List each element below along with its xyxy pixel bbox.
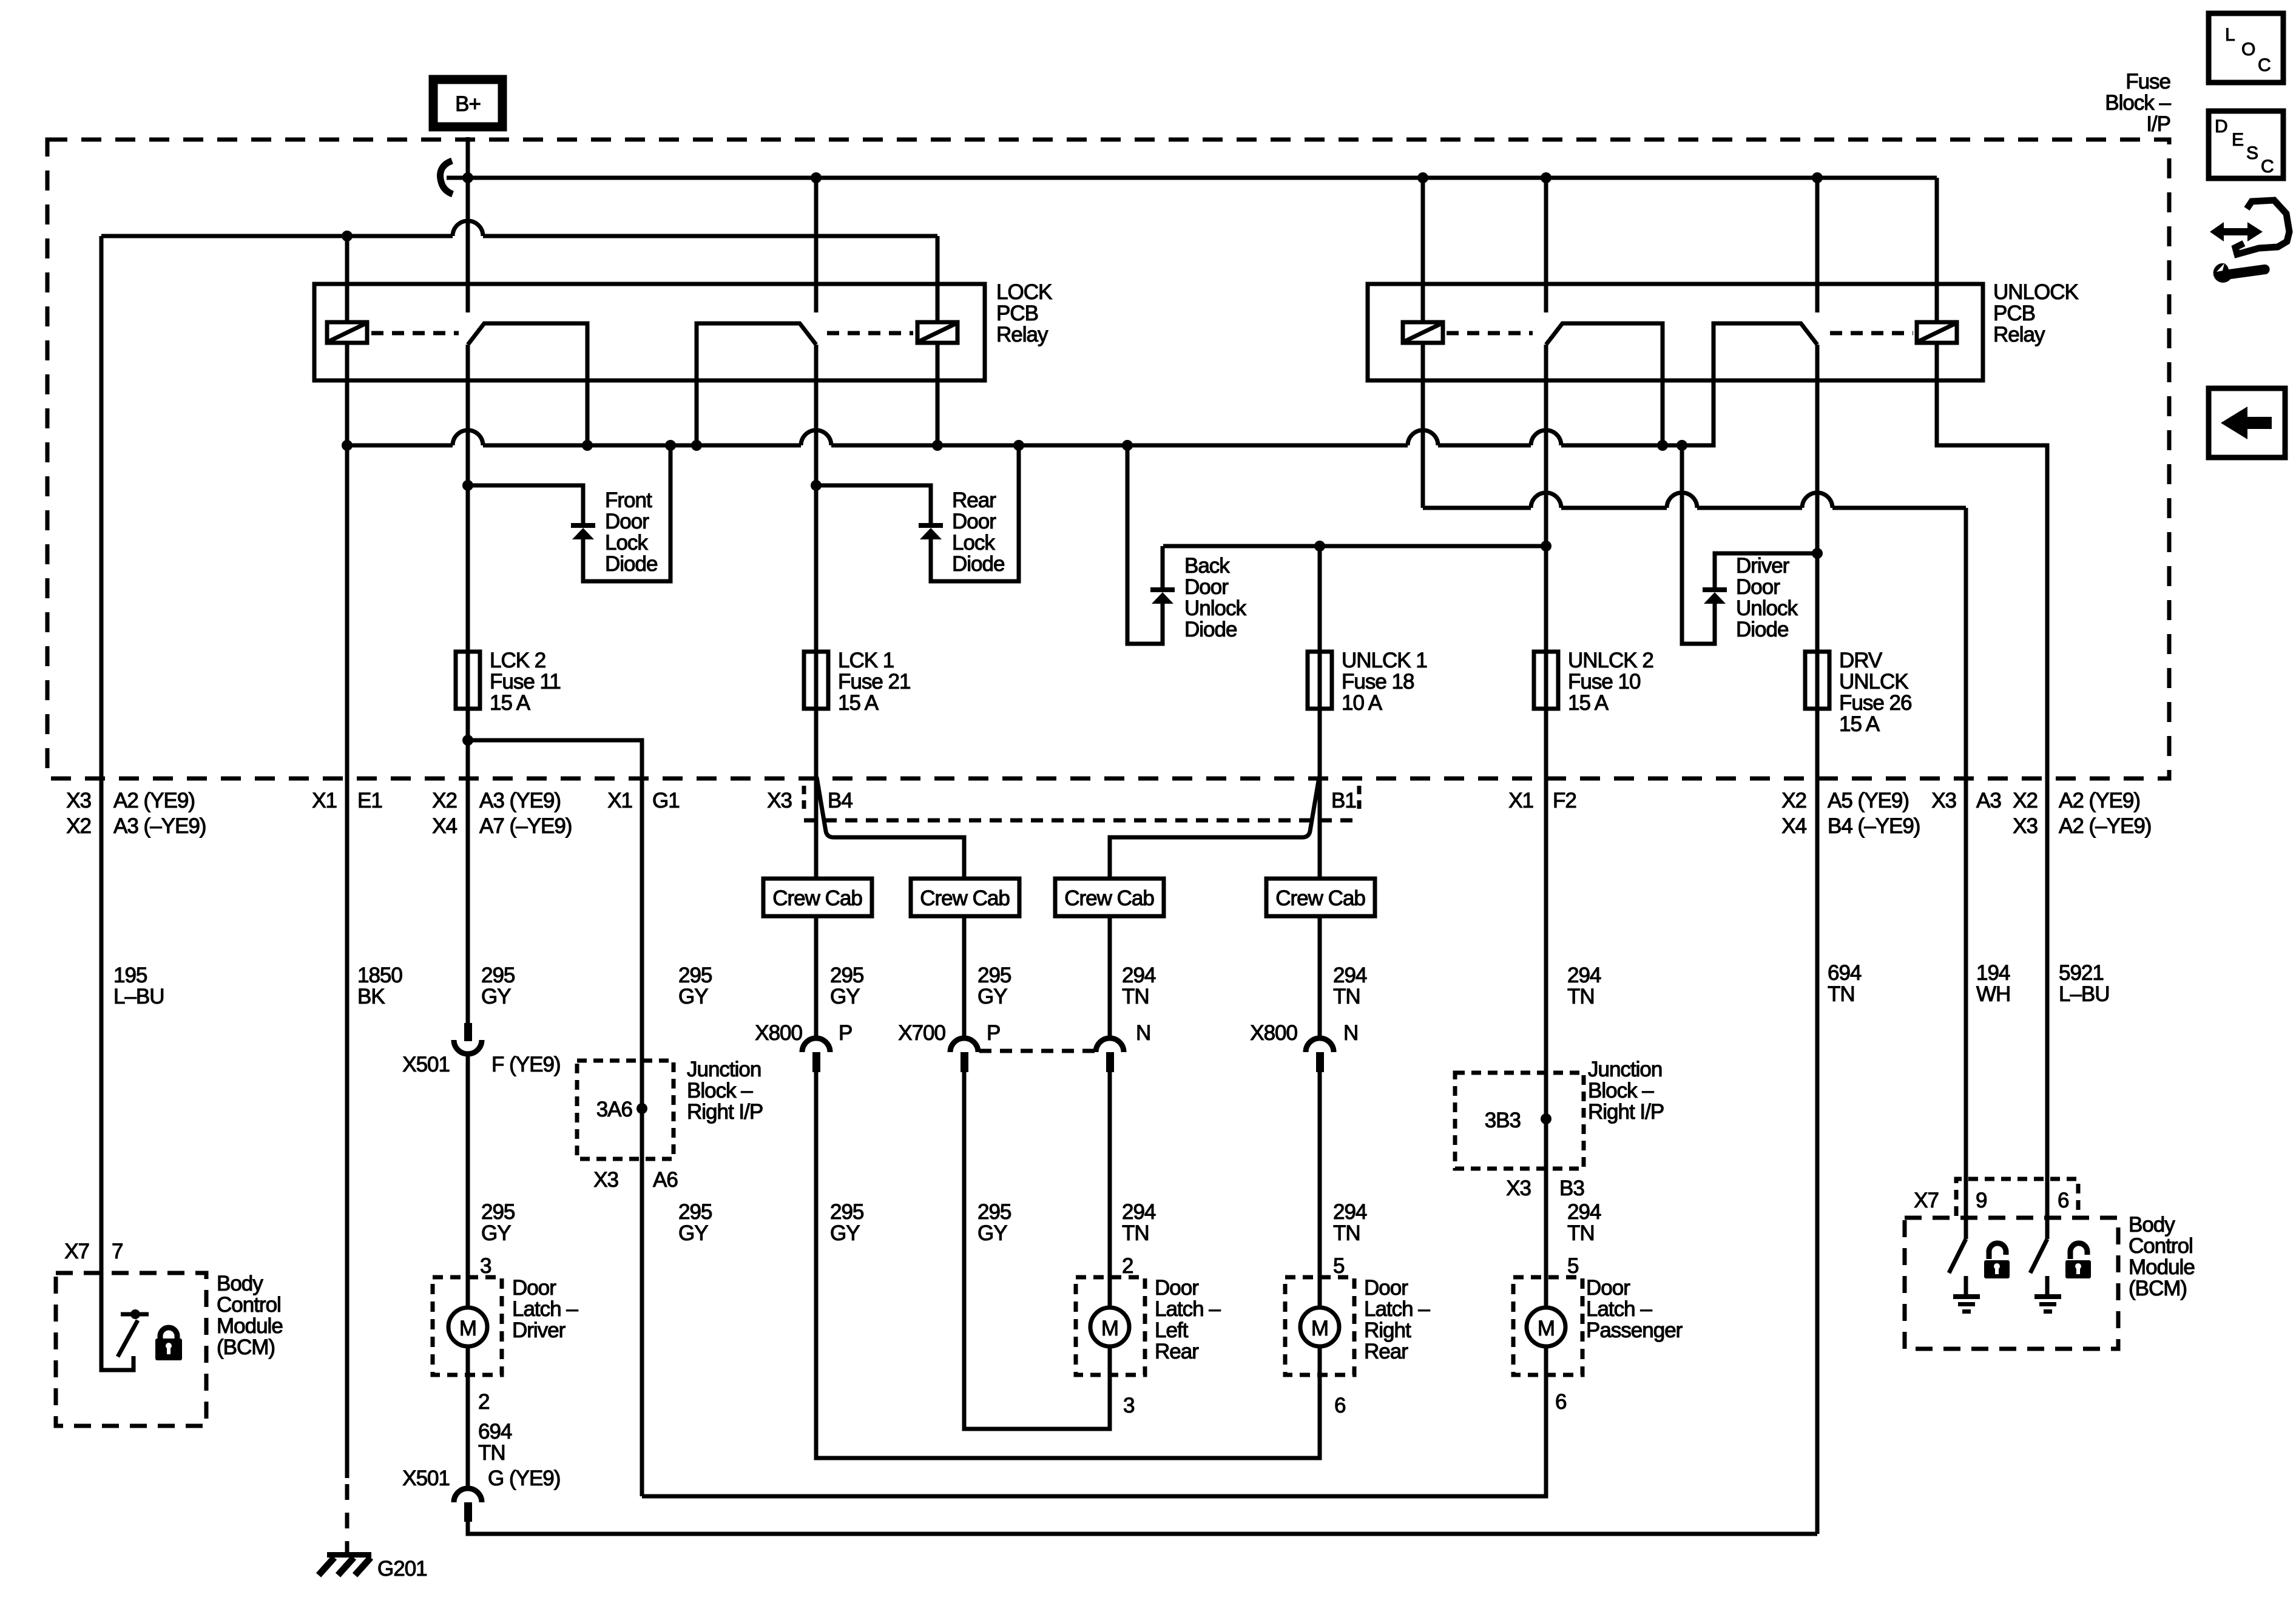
svg-text:Junction: Junction — [687, 1058, 761, 1081]
labels: X3 B3 below junction block — [1506, 1176, 1584, 1200]
svg-text:LCK 1: LCK 1 — [838, 649, 894, 672]
svg-text:BK: BK — [357, 985, 385, 1008]
svg-text:15 A: 15 A — [1568, 691, 1609, 715]
B+ battery positive voltage terminal — [433, 79, 502, 127]
wire: relay output bus (coil/contact rail) — [347, 323, 1714, 445]
labels: X7 7 at left BCM — [64, 1240, 123, 1263]
wire: lock coil L top lead — [345, 236, 349, 322]
svg-text:Junction: Junction — [1588, 1058, 1662, 1081]
hop: control line over driver diode wire — [1667, 493, 1697, 508]
svg-text:Block –: Block – — [2105, 91, 2171, 115]
fuse: DRV UNLCK Fuse 26 15 A — [1805, 652, 1829, 709]
connector X800 pin P on rear lock wire — [802, 1038, 830, 1072]
svg-text:(BCM): (BCM) — [217, 1335, 275, 1359]
svg-text:GY: GY — [481, 985, 511, 1008]
svg-text:6: 6 — [2058, 1189, 2068, 1212]
svg-text:295: 295 — [977, 1200, 1011, 1224]
wire: lock relay coil control line to BCM (pin 7 side) — [101, 234, 937, 238]
wire: UNLCK1 branch down through fuse to B1 — [1318, 546, 1322, 1308]
relay switch 1 (unlock): fixed contact from B+ — [1544, 178, 1548, 312]
fuse: LCK 1 Fuse 21 15 A — [804, 652, 828, 709]
svg-text:10 A: 10 A — [1342, 691, 1383, 715]
diode: Driver Door Unlock Diode — [1703, 587, 1727, 604]
X7 connector dashed box at right BCM — [1956, 1179, 2078, 1216]
wire: crew cab 2 feed down to left rear latch return — [964, 916, 1110, 1429]
svg-text:Right: Right — [1364, 1318, 1411, 1342]
label: Door Latch - Left Rear — [1155, 1276, 1221, 1363]
svg-text:F2: F2 — [1553, 789, 1576, 812]
icon box: back arrow — [2209, 388, 2285, 457]
relay switch B (lock): fixed contact from B+ — [814, 178, 819, 312]
svg-text:O: O — [2241, 39, 2255, 59]
relay coil: unlock relay coil L — [1403, 322, 1443, 343]
svg-text:Fuse 26: Fuse 26 — [1839, 691, 1911, 715]
label: Fuse Block - I/P — [2105, 70, 2171, 136]
ground G201 — [319, 1552, 427, 1581]
hop: output bus over unlock coil L wire — [1408, 430, 1438, 445]
svg-text:X1: X1 — [312, 789, 337, 812]
svg-text:B4 (–YE9): B4 (–YE9) — [1828, 814, 1920, 838]
connector B4-B1 dashed sub-box below fuse block — [804, 786, 1359, 820]
label: Junction Block - Right I/P (3B3) — [1588, 1058, 1664, 1124]
junction: DRV UNLCK wire at driver diode — [1812, 548, 1823, 559]
svg-text:B3: B3 — [1559, 1176, 1584, 1200]
svg-text:A2 (–YE9): A2 (–YE9) — [2059, 814, 2151, 838]
hop: output bus over LCK2 wire — [453, 430, 483, 445]
junction: unlock feed at UNLCK2 wire — [1541, 541, 1551, 552]
svg-text:Rear: Rear — [1155, 1340, 1199, 1363]
svg-text:6: 6 — [1334, 1394, 1345, 1417]
svg-text:Latch –: Latch – — [512, 1297, 578, 1321]
label: UNLOCK PCB Relay — [1993, 280, 2079, 346]
svg-text:A6: A6 — [653, 1168, 678, 1192]
svg-text:Module: Module — [2129, 1255, 2195, 1279]
svg-text:N: N — [1136, 1021, 1150, 1045]
junction: output bus at back door unlock diode — [1122, 440, 1133, 451]
svg-text:3B3: 3B3 — [1485, 1109, 1521, 1132]
wire: B1 split to crew cab rear unlock feed — [1110, 777, 1319, 879]
svg-text:P: P — [839, 1021, 852, 1045]
svg-text:X4: X4 — [432, 814, 457, 838]
svg-text:Diode: Diode — [1184, 618, 1237, 641]
junction on B+ bus at unlock coil L — [1417, 172, 1428, 183]
switch: BCM unlock switch pin 9 — [1949, 1239, 1966, 1273]
svg-text:L–BU: L–BU — [113, 985, 164, 1008]
connector X800 pin N — [1306, 1038, 1334, 1072]
svg-text:294: 294 — [1333, 964, 1367, 987]
junction: output bus at lock switch A NO contact — [582, 440, 593, 451]
junction on B+ bus at B+ drop — [462, 172, 473, 183]
svg-text:X700: X700 — [898, 1021, 945, 1045]
svg-text:E1: E1 — [357, 789, 382, 812]
svg-text:C: C — [2261, 157, 2274, 177]
svg-text:A2 (YE9): A2 (YE9) — [113, 789, 195, 812]
relay coil: unlock relay coil R — [1917, 322, 1957, 343]
relay coil: lock relay coil L — [327, 322, 367, 343]
svg-text:X3: X3 — [593, 1168, 618, 1192]
hop: control line over UNLCK2 wire — [1531, 493, 1561, 508]
svg-text:L: L — [2225, 25, 2235, 45]
svg-text:295: 295 — [830, 1200, 863, 1224]
svg-text:Crew Cab: Crew Cab — [1064, 886, 1154, 910]
labels: X3 A6 below junction block — [593, 1168, 678, 1192]
svg-text:194: 194 — [1976, 961, 2010, 985]
svg-text:Door: Door — [1364, 1276, 1408, 1300]
junction: LCK1 wire at rear door lock diode — [811, 480, 822, 491]
svg-text:B1: B1 — [1331, 789, 1356, 812]
switch: BCM unlock switch pin 6 — [2030, 1239, 2047, 1273]
wire: unlock feed line to UNLCK fuses — [1163, 544, 1546, 549]
relay switch B (lock): movable blade and NO contact path — [697, 323, 816, 445]
svg-text:Door: Door — [1586, 1276, 1630, 1300]
junction: coil bus at lock coil L — [342, 440, 353, 451]
label: UNLCK 1 Fuse 18 10 A — [1342, 649, 1427, 715]
svg-text:Front: Front — [605, 488, 652, 512]
svg-text:X1: X1 — [1508, 789, 1533, 812]
junction: output bus at unlock switch 1 NO contact — [1657, 440, 1668, 451]
svg-text:295: 295 — [830, 964, 863, 987]
svg-text:X501: X501 — [402, 1467, 450, 1490]
wire: lock coil R bottom lead — [936, 343, 940, 445]
fuse block dashed outline (Fuse Block - I/P) — [47, 140, 2169, 778]
dashed link: switch 2 to unlock coil R — [1830, 331, 1913, 336]
svg-text:GY: GY — [678, 1221, 708, 1245]
svg-text:Module: Module — [217, 1314, 283, 1338]
svg-text:TN: TN — [478, 1441, 505, 1465]
svg-text:Door: Door — [1736, 575, 1780, 599]
label: Door Latch - Driver — [512, 1276, 578, 1342]
svg-text:1850: 1850 — [357, 964, 402, 987]
svg-text:LCK 2: LCK 2 — [490, 649, 545, 672]
relay box: UNLOCK PCB Relay — [1368, 284, 1983, 380]
svg-text:X3: X3 — [66, 789, 91, 812]
svg-text:X2: X2 — [2013, 789, 2038, 812]
label: Rear Door Lock Diode — [952, 488, 1004, 576]
icon box: LOC — [2209, 13, 2283, 83]
back door unlock diode loop wiring — [1127, 445, 1163, 644]
svg-text:5: 5 — [1567, 1254, 1578, 1278]
icon: open padlock (unlock function) 2 — [2065, 1243, 2091, 1278]
svg-text:Latch –: Latch – — [1364, 1297, 1430, 1321]
junction on B+ bus at LCK1 switch — [811, 172, 822, 183]
svg-text:UNLCK 1: UNLCK 1 — [1342, 649, 1427, 672]
svg-text:Body: Body — [2129, 1213, 2175, 1237]
svg-text:L–BU: L–BU — [2059, 982, 2110, 1006]
wire: unlock coil L top lead from B+ bus — [1421, 178, 1425, 322]
icon: repair instructions (arrow, part outline, wrench) — [2210, 200, 2289, 283]
junction on B+ bus at UNLCK switch 2 — [1812, 172, 1823, 183]
svg-text:TN: TN — [1333, 985, 1360, 1008]
svg-text:294: 294 — [1122, 964, 1156, 987]
svg-text:Fuse: Fuse — [2125, 70, 2170, 93]
connector X700 pin N — [1096, 1038, 1124, 1072]
label: LCK 2 Fuse 11 15 A — [490, 649, 561, 715]
svg-text:X2: X2 — [1781, 789, 1806, 812]
svg-text:WH: WH — [1976, 982, 2010, 1006]
svg-text:A3 (–YE9): A3 (–YE9) — [113, 814, 206, 838]
svg-text:Fuse 21: Fuse 21 — [838, 670, 910, 694]
svg-text:Door: Door — [512, 1276, 556, 1300]
svg-text:Door: Door — [1184, 575, 1229, 599]
connector X501 pin G on driver latch return wire — [402, 1467, 560, 1522]
svg-text:294: 294 — [1567, 1200, 1601, 1224]
svg-text:6: 6 — [1555, 1390, 1566, 1414]
label: Driver Door Unlock Diode — [1736, 554, 1798, 641]
svg-text:Back: Back — [1184, 554, 1230, 578]
wire: B+ supply bus inside fuse block — [447, 176, 1937, 180]
svg-text:Driver: Driver — [1736, 554, 1790, 578]
svg-text:B+: B+ — [455, 92, 481, 116]
diode: Rear Door Lock Diode — [919, 523, 943, 539]
label: Door Latch - Right Rear — [1364, 1276, 1430, 1363]
svg-text:TN: TN — [1828, 982, 1855, 1006]
svg-text:X2: X2 — [66, 814, 91, 838]
label: Front Door Lock Diode — [605, 488, 657, 576]
label: Body Control Module (BCM) right — [2129, 1213, 2195, 1300]
svg-text:9: 9 — [1976, 1189, 1987, 1212]
label: DRV UNLCK Fuse 26 15 A — [1839, 649, 1911, 736]
svg-text:Diode: Diode — [952, 552, 1004, 576]
svg-text:M: M — [459, 1317, 476, 1340]
svg-text:Crew Cab: Crew Cab — [920, 886, 1010, 910]
connector X501 pin F on driver latch wire — [402, 1023, 560, 1076]
svg-text:3: 3 — [1123, 1394, 1134, 1417]
labels: X800 P / X700 P / N / X800 N — [755, 1021, 1358, 1045]
svg-text:LOCK: LOCK — [996, 280, 1052, 304]
junction: LCK2 wire at G1 branch — [462, 735, 473, 746]
svg-text:X7: X7 — [64, 1240, 89, 1263]
svg-text:15 A: 15 A — [1839, 712, 1880, 736]
dashed link: switch B to lock coil R — [827, 331, 913, 336]
svg-text:Crew Cab: Crew Cab — [772, 886, 862, 910]
junction: unlock feed at UNLCK1 fuse — [1314, 541, 1325, 552]
svg-text:295: 295 — [481, 964, 515, 987]
relay switch A (lock): fixed contact from B+ — [466, 178, 470, 312]
relay box: LOCK PCB Relay — [314, 284, 985, 380]
svg-text:694: 694 — [478, 1420, 512, 1443]
svg-text:GY: GY — [977, 985, 1007, 1008]
svg-text:X3: X3 — [767, 789, 792, 812]
diode: Back Door Unlock Diode — [1150, 587, 1175, 604]
svg-text:Control: Control — [2129, 1234, 2193, 1258]
junction block dashed box: Junction Block - Right I/P (3A6) — [577, 1061, 674, 1159]
front door lock diode loop wiring — [468, 445, 670, 581]
svg-text:2: 2 — [478, 1390, 489, 1414]
ground: BCM pin 6 internal ground — [2034, 1276, 2061, 1314]
svg-text:X2: X2 — [432, 789, 457, 812]
svg-text:Fuse 18: Fuse 18 — [1342, 670, 1414, 694]
wire: lock coil L bottom lead to coil bus and E1 ground wire (1850 BK) — [345, 343, 349, 1478]
svg-text:PCB: PCB — [996, 302, 1038, 325]
relay coil: lock relay coil R — [917, 322, 957, 343]
svg-text:E: E — [2232, 130, 2243, 150]
wire: B4 split to crew cab rear lock feed — [817, 777, 964, 879]
hop: control line crosses B+ drop — [453, 221, 483, 236]
svg-text:Door: Door — [1155, 1276, 1199, 1300]
svg-text:X800: X800 — [755, 1021, 802, 1045]
svg-text:GY: GY — [977, 1221, 1007, 1245]
wire: UNLCK2 feed from unlock switch 1 down through fuse to passenger latch — [642, 345, 1546, 1496]
option box: Crew Cab 4 — [1266, 879, 1375, 916]
svg-text:A3 (YE9): A3 (YE9) — [479, 789, 561, 812]
junction: LCK2 wire at front door lock diode — [462, 480, 473, 491]
wire: G1 branch from LCK2 to junction block — [468, 740, 642, 1496]
svg-text:Relay: Relay — [1993, 323, 2045, 346]
svg-text:3: 3 — [480, 1254, 491, 1278]
svg-text:TN: TN — [1333, 1221, 1360, 1245]
svg-text:A2 (YE9): A2 (YE9) — [2059, 789, 2140, 812]
svg-text:D: D — [2215, 116, 2227, 137]
fuse: LCK 2 Fuse 11 15 A — [456, 652, 480, 709]
svg-text:Right I/P: Right I/P — [687, 1100, 763, 1124]
labels: X7 9 6 at right BCM — [1914, 1189, 2068, 1212]
svg-text:TN: TN — [1122, 1221, 1149, 1245]
switch: BCM lock driver switch — [118, 1309, 149, 1357]
svg-text:295: 295 — [678, 1200, 712, 1224]
svg-text:Block –: Block – — [687, 1079, 753, 1102]
wire: unlock coil R bottom lead to 5921 L-BU branch — [1937, 343, 2047, 1239]
label: LOCK PCB Relay — [996, 280, 1052, 346]
svg-text:294: 294 — [1122, 1200, 1156, 1224]
svg-text:Lock: Lock — [605, 531, 648, 555]
svg-text:Block –: Block – — [1588, 1079, 1654, 1102]
svg-text:694: 694 — [1828, 961, 1862, 985]
svg-text:Door: Door — [952, 510, 996, 533]
svg-text:A5 (YE9): A5 (YE9) — [1828, 789, 1909, 812]
wire color label: 694 TN driver latch return — [478, 1420, 512, 1465]
ground: BCM pin 9 internal ground — [1953, 1276, 1980, 1314]
wire: crew cab 3 feed down to left rear latch — [1108, 916, 1112, 1308]
svg-text:X3: X3 — [1931, 789, 1956, 812]
svg-text:Fuse 11: Fuse 11 — [490, 670, 561, 694]
svg-text:B4: B4 — [828, 789, 853, 812]
junction on B+ bus at UNLCK switch 1 — [1541, 172, 1551, 183]
svg-text:Control: Control — [217, 1293, 281, 1317]
svg-text:A7 (–YE9): A7 (–YE9) — [479, 814, 572, 838]
svg-text:Unlock: Unlock — [1184, 596, 1246, 620]
svg-text:GY: GY — [830, 1221, 860, 1245]
svg-text:(BCM): (BCM) — [2129, 1277, 2187, 1300]
fuse: UNLCK 2 Fuse 10 15 A — [1534, 652, 1558, 709]
wire: unlock coil R feed from bus corner — [1935, 178, 1939, 322]
junction: output bus at driver door unlock diode — [1676, 440, 1687, 451]
hop: output bus over UNLCK2 wire — [1531, 430, 1561, 445]
svg-text:X501: X501 — [402, 1053, 450, 1076]
svg-text:294: 294 — [1567, 964, 1601, 987]
icon: open padlock (unlock function) 1 — [1984, 1243, 2010, 1278]
svg-text:Door: Door — [605, 510, 649, 533]
junction: output bus at rear door lock diode — [1013, 440, 1024, 451]
svg-text:Latch –: Latch – — [1155, 1297, 1221, 1321]
svg-text:TN: TN — [1122, 985, 1149, 1008]
wire: unlock control line (y=837) to 194 WH branch — [1423, 506, 1966, 510]
junction: output bus at front door lock diode — [665, 440, 676, 451]
svg-text:15 A: 15 A — [838, 691, 879, 715]
hop: control line over DRV UNLCK wire — [1802, 493, 1832, 508]
svg-text:295: 295 — [977, 964, 1011, 987]
svg-text:X3: X3 — [1506, 1176, 1531, 1200]
svg-text:G (YE9): G (YE9) — [488, 1467, 560, 1490]
label: Door Latch - Passenger — [1586, 1276, 1683, 1342]
wire: DRV UNLCK feed from unlock switch 2 down through fuse — [1815, 345, 1820, 1534]
svg-text:GY: GY — [678, 985, 708, 1008]
motor: Door Latch - Right Rear — [1285, 1277, 1354, 1375]
svg-text:I/P: I/P — [2146, 112, 2170, 136]
svg-text:Driver: Driver — [512, 1318, 566, 1342]
label: LCK 1 Fuse 21 15 A — [838, 649, 910, 715]
label: Back Door Unlock Diode — [1184, 554, 1246, 641]
wire: LCK2 feed from lock switch A down through fuse to driver door latch — [468, 345, 1817, 1534]
svg-text:294: 294 — [1333, 1200, 1367, 1224]
dashed link: unlock coil L to switch 1 — [1447, 331, 1533, 336]
driver door unlock diode loop wiring — [1682, 445, 1817, 644]
relay switch 1 (unlock): movable blade and NO contact path — [1546, 323, 1663, 445]
svg-text:M: M — [1101, 1317, 1118, 1340]
svg-text:195: 195 — [113, 964, 147, 987]
BCM dashed box left (lock switch) — [56, 1273, 206, 1426]
svg-text:Passenger: Passenger — [1586, 1318, 1683, 1342]
relay switch 2 (unlock): movable blade and NO contact path — [1714, 323, 1817, 445]
svg-text:Unlock: Unlock — [1736, 596, 1798, 620]
svg-text:Right I/P: Right I/P — [1588, 1100, 1664, 1124]
option box: Crew Cab 3 — [1055, 879, 1164, 916]
icon: closed padlock (lock function) — [155, 1328, 182, 1360]
svg-text:UNLCK: UNLCK — [1839, 670, 1908, 694]
svg-text:X1: X1 — [607, 789, 632, 812]
dashed wire: 1850 BK continues to ground — [345, 1484, 349, 1553]
BCM dashed box right (unlock switches) — [1905, 1218, 2118, 1349]
svg-text:295: 295 — [481, 1200, 515, 1224]
svg-text:X3: X3 — [2013, 814, 2038, 838]
label: Junction Block - Right I/P (3A6) — [687, 1058, 763, 1124]
svg-text:UNLOCK: UNLOCK — [1993, 280, 2079, 304]
svg-text:A3: A3 — [1976, 789, 2001, 812]
svg-text:Left: Left — [1155, 1318, 1189, 1342]
svg-text:G201: G201 — [377, 1557, 427, 1581]
svg-text:5921: 5921 — [2059, 961, 2104, 985]
junction: output bus at lock coil R — [932, 440, 943, 451]
svg-text:2: 2 — [1122, 1254, 1133, 1278]
svg-text:Rear: Rear — [1364, 1340, 1408, 1363]
svg-text:P: P — [987, 1021, 1000, 1045]
junction block dashed box: Junction Block - Right I/P (3B3) — [1455, 1073, 1584, 1169]
svg-text:15 A: 15 A — [490, 691, 531, 715]
svg-text:Diode: Diode — [1736, 618, 1788, 641]
svg-text:X4: X4 — [1781, 814, 1806, 838]
svg-text:TN: TN — [1567, 1221, 1595, 1245]
option box: Crew Cab 2 — [911, 879, 1019, 916]
label: Body Control Module (BCM) left — [217, 1272, 283, 1359]
motor: Door Latch - Passenger — [1513, 1277, 1582, 1375]
svg-text:Lock: Lock — [952, 531, 995, 555]
wire: 194 WH branch down to BCM pin 9 — [1964, 508, 1968, 1239]
wire color labels upper row — [113, 961, 2110, 1008]
label: UNLCK 2 Fuse 10 15 A — [1568, 649, 1653, 715]
hop: output bus over LCK1 wire — [801, 430, 831, 445]
svg-text:7: 7 — [112, 1240, 123, 1263]
svg-text:Rear: Rear — [952, 488, 996, 512]
svg-text:Diode: Diode — [605, 552, 657, 576]
svg-text:3A6: 3A6 — [596, 1098, 632, 1121]
dashed link: lock coil L to switch A — [371, 331, 459, 336]
wire: unlock coil L bottom lead down to control line corner — [1421, 343, 1425, 508]
rear door lock diode loop wiring — [816, 445, 1019, 581]
svg-text:G1: G1 — [652, 789, 680, 812]
svg-text:Crew Cab: Crew Cab — [1275, 886, 1365, 910]
dashed tie between X700 P and N connector halves — [979, 1049, 1095, 1053]
svg-text:M: M — [1538, 1317, 1555, 1340]
svg-text:Body: Body — [217, 1272, 263, 1295]
